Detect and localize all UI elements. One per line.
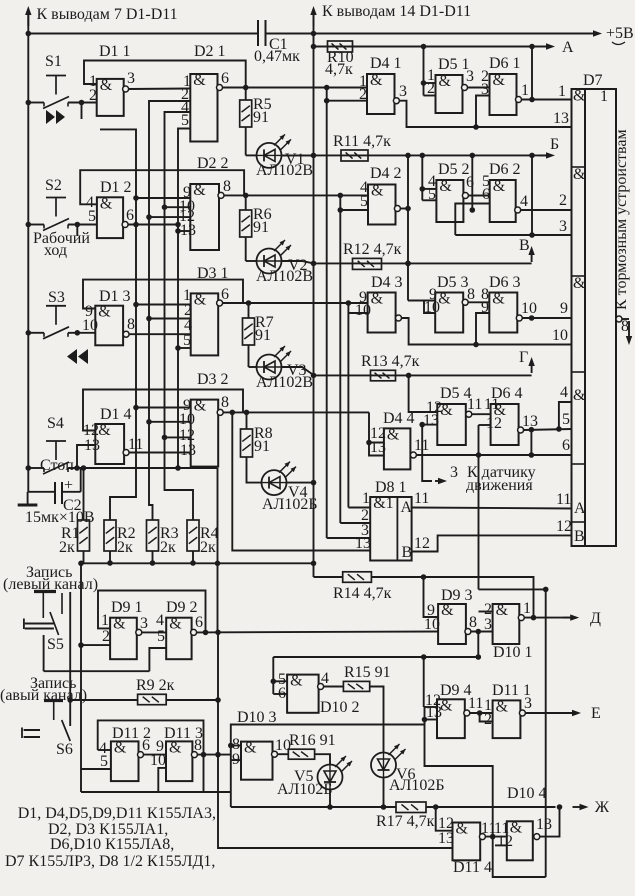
svg-text:D6 2: D6 2 [489, 161, 521, 178]
wire node A down to D5.1 pins [423, 47, 425, 96]
wire V1 to B rail [282, 154, 314, 156]
wire D4.2 out to row vertical [400, 208, 408, 210]
resistor R12 [353, 258, 382, 269]
svg-text:1: 1 [558, 83, 566, 100]
resistor R1 [78, 520, 90, 551]
node V arrow [531, 250, 533, 262]
wire S5 down to D9.2 pin5 [43, 635, 45, 671]
gate D10.1 [493, 604, 520, 644]
wire V6 to Zh rail [383, 778, 385, 808]
wire D5.2 pin5 stub [422, 199, 436, 201]
svg-text:&: & [496, 602, 509, 619]
wire D6.4 pin12 stub [479, 424, 491, 426]
svg-text:&1: &1 [373, 495, 393, 512]
gate D6.3 [489, 293, 517, 333]
wire D4.4 out to D7 pin6 [416, 454, 571, 456]
wire D10.2 out to R15 [324, 686, 344, 688]
wire D3.2 pin10 to bus2 [149, 421, 191, 423]
wire out node down to y657 [477, 632, 479, 658]
svg-text:5: 5 [562, 411, 570, 428]
record head S5 [34, 590, 56, 593]
svg-text:S5: S5 [47, 636, 64, 653]
gate D6.3 output bubble [516, 315, 522, 321]
svg-text:3: 3 [559, 218, 567, 235]
gate D11.1 [493, 700, 521, 738]
gate D9.1 [110, 618, 137, 660]
svg-text:1: 1 [101, 612, 109, 629]
switch S1 [46, 75, 66, 77]
svg-text:R11 4,7к: R11 4,7к [333, 133, 391, 150]
gate D6.4 output bubble [518, 427, 524, 433]
wire +5V vertical middle [313, 10, 315, 577]
svg-text:R17 4,7к: R17 4,7к [376, 813, 435, 830]
wire C2 right up to S4 row [62, 491, 81, 493]
svg-text:D11 4: D11 4 [453, 859, 492, 876]
ground [27, 492, 29, 504]
gate D5.3 [435, 293, 463, 333]
wire R5 to V1 [245, 127, 247, 155]
wire D3.1 pin1 to bus1 [136, 304, 191, 306]
svg-text:&: & [98, 304, 111, 321]
svg-text:&: & [100, 77, 113, 94]
wire S1 stub down [81, 103, 83, 120]
wire R16 to V5 [315, 754, 330, 764]
svg-text:13: 13 [423, 412, 439, 429]
svg-text:&: & [573, 88, 586, 105]
svg-text:&: & [492, 291, 505, 308]
gate D10.4 [507, 821, 533, 860]
svg-text:&: & [193, 182, 206, 199]
gate D5.4 [437, 404, 466, 445]
wire D2.2 pin12 to bus2 [149, 216, 190, 218]
rewind symbol [78, 349, 88, 364]
wire S2 stub [76, 225, 78, 237]
wire vertical D9.2-out down to D11.4 pin13 [218, 632, 453, 848]
wire node down to D9.3 pin9 [424, 577, 439, 617]
svg-text:D3 1: D3 1 [197, 265, 229, 282]
gate D5.4 output bubble [466, 411, 472, 417]
gate D4.3 [368, 293, 396, 333]
wire D1.4 pin13 from S4 [77, 445, 95, 468]
svg-text:2к: 2к [117, 539, 133, 556]
gate D2.2 [190, 184, 219, 250]
IC D7 [572, 89, 586, 546]
capacitor C1 [257, 20, 259, 46]
wire B-rail down to D6.2 out node [471, 155, 473, 210]
wire D6.4 out to D7 pin5 [524, 429, 572, 430]
wire D10.2 pin5 stub [273, 680, 287, 682]
wire D9.2 out to D9.3 pin10 [197, 631, 439, 634]
svg-text:10: 10 [424, 299, 440, 316]
svg-text:D4 4: D4 4 [383, 410, 415, 427]
svg-text:11: 11 [128, 436, 143, 453]
gate D10.2 [287, 675, 319, 713]
wire S2 row [28, 224, 44, 226]
wire bus D2.1-out down to D8.1 pin3 [326, 101, 328, 538]
resistor R8 hang wire [246, 412, 248, 429]
gate D11.4 output bubble [479, 834, 485, 840]
svg-text:&: & [439, 178, 452, 195]
wire R9 feed from interlock [70, 699, 137, 701]
wire D10.1 pin2 feed [479, 611, 493, 613]
svg-text:&: & [456, 821, 469, 838]
svg-text:11: 11 [556, 491, 571, 508]
wire V5 to Zh rail [329, 790, 331, 808]
svg-text:10: 10 [521, 300, 537, 317]
gate D4.2 output bubble [394, 206, 400, 212]
wire S1 row [28, 102, 44, 104]
wire D7 pin8 output [616, 316, 622, 322]
wire node line y657 [273, 656, 478, 658]
svg-text:D9 2: D9 2 [166, 599, 198, 616]
wire V2 to V rail [282, 261, 314, 263]
svg-text:R9 2к: R9 2к [136, 677, 175, 694]
svg-text:6: 6 [221, 70, 229, 87]
wire +5V vertical to R14 [314, 576, 343, 578]
svg-text:5: 5 [157, 628, 165, 645]
LED V3 [257, 355, 282, 380]
wire D9.4 pin13 line to D10.3 [231, 707, 425, 760]
wire D3.2 pin12 to bus3 [165, 436, 191, 438]
wire D9.1 pin2 from record line [81, 644, 110, 646]
svg-text:2к: 2к [200, 539, 216, 556]
gate D10.2 output bubble [318, 684, 324, 690]
gate D11.2 output bubble [138, 752, 144, 758]
gate D1.2 output bubble [122, 222, 128, 228]
record head S6 [44, 699, 63, 702]
svg-text:8: 8 [223, 178, 231, 195]
svg-text:(авый канал): (авый канал) [0, 687, 87, 704]
svg-text:S6: S6 [56, 741, 73, 758]
gate D4.1 [367, 74, 395, 114]
gate D11.3 [166, 741, 192, 781]
wire D11.2 out to D11.3 pin9 [144, 754, 167, 756]
wire D11.2 pin4 stub [98, 749, 111, 751]
gate D2.2 output bubble [218, 192, 224, 198]
wire D3.1 pin2 to bus2 [149, 318, 191, 320]
svg-text:D1 3: D1 3 [99, 288, 131, 305]
svg-text:D6 3: D6 3 [489, 274, 521, 291]
wire R14 to node [371, 576, 423, 578]
wire y657 left vertical down to D9.4 [423, 657, 425, 707]
svg-text:К тормозным устройствам: К тормозным устройствам [613, 129, 630, 310]
wire D2.2 pin10 to bus3 [165, 206, 191, 208]
wire D11.1 pin2 stub [480, 713, 493, 722]
op-amp D4.1 output bubble [393, 98, 399, 104]
svg-text:АЛ102В: АЛ102В [256, 162, 313, 179]
svg-text:+5В: +5В [606, 25, 634, 42]
svg-text:&: & [441, 602, 454, 619]
LED V1 [257, 143, 282, 168]
svg-text:D5 2: D5 2 [438, 161, 470, 178]
+5V arrow [593, 30, 602, 36]
wire D9.4 pin12 stub [425, 706, 438, 708]
wire down to D10.2 pins [272, 657, 274, 694]
svg-text:Б: Б [550, 136, 559, 153]
gate D4.2 [368, 185, 396, 225]
gate D5.2 output bubble [462, 193, 468, 199]
wire GND top rail to C1 [28, 33, 258, 35]
svg-text:&: & [493, 72, 506, 89]
wire D6.1 out to D7 pin1 [522, 99, 572, 101]
svg-text:8: 8 [127, 316, 135, 333]
svg-text:&: & [496, 698, 509, 715]
wire D4.3 out to D7 pin10 line [402, 318, 572, 345]
svg-text:А: А [574, 500, 586, 517]
gate D9.4 [437, 699, 465, 738]
resistor R9 [138, 694, 167, 704]
resistor R5 hang wire [245, 88, 247, 101]
svg-text:3: 3 [140, 615, 148, 632]
wire D5.4 out to D6.4 pin11 [472, 413, 491, 415]
svg-text:12: 12 [556, 518, 572, 535]
svg-text:&: & [387, 426, 400, 443]
play symbol [46, 110, 55, 124]
wire row V rail [314, 262, 532, 264]
node A arrow [539, 46, 551, 48]
svg-text:АЛ102Б: АЛ102Б [262, 496, 318, 513]
gate D3.2 output bubble [217, 409, 223, 415]
LED V2 [257, 249, 282, 274]
svg-text:8: 8 [469, 614, 477, 631]
svg-text:10: 10 [552, 327, 568, 344]
wire R17 node to D11.4 pin12 [436, 807, 453, 831]
wire B-rail down to D5.2 pins [421, 155, 423, 200]
gate D5.1 output bubble [462, 85, 468, 91]
wire D6.2 pin6 to D7 pin3 line [455, 204, 489, 236]
svg-text:5: 5 [428, 186, 436, 203]
svg-text:6: 6 [195, 614, 203, 631]
svg-text:D6 4: D6 4 [491, 385, 523, 402]
svg-text:13: 13 [355, 535, 371, 552]
svg-text:3: 3 [450, 464, 458, 481]
wire loop vertical down [545, 589, 547, 877]
svg-text:0,47мк: 0,47мк [254, 48, 300, 65]
wire D3.1 out to D4.3 pin9 [223, 302, 368, 304]
wire D1.2-D2.2 feedback loop [80, 170, 244, 204]
svg-text:10: 10 [424, 616, 440, 633]
wire D2.2 out to D4.2 pins 4-5 [223, 194, 368, 196]
wire D4.4 pin13 tie [369, 443, 384, 456]
svg-text:2: 2 [89, 87, 97, 104]
wire D3.2 out to D4.4 pins [223, 411, 369, 413]
gate D2.1 output bubble [217, 85, 223, 91]
svg-text:&: & [371, 291, 384, 308]
wire D10.3 out to R16 [278, 753, 289, 755]
wire row B rail [281, 154, 549, 156]
gate D1.2 [97, 197, 123, 238]
svg-text:D5 3: D5 3 [437, 274, 469, 291]
wire D9.1 out to D9.2 pin4 [142, 631, 166, 633]
svg-text:R13 4,7к: R13 4,7к [361, 353, 420, 370]
wire D6.2 out to D7 pin2 [521, 209, 572, 211]
svg-text:1: 1 [362, 490, 370, 507]
LED V4 [262, 470, 287, 495]
wire D5.1 pin2 stub [424, 95, 436, 97]
svg-text:D10 3: D10 3 [237, 709, 277, 726]
gate D5.2 [436, 180, 463, 222]
svg-text:4: 4 [520, 193, 528, 210]
gate D6.2 [490, 180, 516, 222]
svg-text:D6,D10 К155ЛА8,: D6,D10 К155ЛА8, [50, 836, 174, 853]
svg-text:D11 2: D11 2 [112, 725, 151, 742]
wire D4.2 pin4-5 tie [339, 195, 341, 210]
svg-text:D7: D7 [583, 72, 603, 89]
svg-text:5: 5 [181, 112, 189, 129]
wire R bottom rail [83, 551, 85, 563]
svg-text:5: 5 [100, 753, 108, 770]
svg-text:13: 13 [553, 110, 569, 127]
capacitor C2 [54, 482, 56, 504]
svg-text:R16 91: R16 91 [289, 732, 336, 749]
wire R1 feed [83, 468, 85, 520]
svg-text:&: & [493, 178, 506, 195]
svg-text:D9 1: D9 1 [111, 599, 143, 616]
wire D4.1 out to D7 pin13 [399, 101, 571, 127]
svg-text:2: 2 [484, 711, 492, 728]
svg-text:движения: движения [466, 477, 533, 494]
svg-text:D8 1: D8 1 [375, 479, 407, 496]
svg-text:91: 91 [253, 219, 269, 236]
gate D9.3 [438, 604, 466, 644]
svg-text:B: B [402, 544, 413, 561]
svg-text:&: & [290, 673, 303, 690]
svg-text:11: 11 [414, 490, 429, 507]
svg-text:S4: S4 [47, 415, 64, 432]
svg-text:&: & [193, 72, 206, 89]
resistor R6 hang wire [245, 195, 247, 210]
svg-text:3: 3 [127, 70, 135, 87]
gate D8.1 [370, 497, 411, 561]
wire bus1 top segment [100, 129, 136, 520]
wire row A rail [314, 46, 550, 48]
svg-text:&: & [573, 166, 586, 183]
resistor R3 [147, 520, 159, 551]
svg-text:A: A [401, 499, 413, 516]
wire vertical B to D5.3 pin9 [407, 155, 409, 300]
wire D2.2 pin9 to bus1 [136, 197, 190, 199]
wire D6.1 pin3 to pin13 line [476, 96, 490, 128]
switch S4 [46, 440, 66, 442]
LED V5 [318, 765, 343, 790]
wire D10.1 out to node D arrow [524, 617, 575, 619]
wire G rail down to D5.4 pin12 [409, 375, 438, 412]
wire +5V rail from C1 [266, 33, 599, 35]
node B arrow [539, 154, 551, 156]
wire D11.1 out to node E arrow [525, 712, 577, 714]
svg-text:АЛ102В: АЛ102В [256, 268, 313, 285]
svg-text:Е: Е [591, 705, 601, 722]
svg-text:D4 3: D4 3 [371, 274, 403, 291]
resistor R8 [241, 429, 253, 457]
gate D1.1 [97, 79, 124, 116]
svg-text:&: & [194, 291, 207, 308]
gate D6.2 output bubble [515, 207, 521, 213]
svg-text:13: 13 [438, 830, 454, 847]
wire D5.4 pin13 stub [422, 424, 437, 426]
svg-text:&: & [438, 291, 451, 308]
wire S5 interlock vertical [69, 592, 71, 726]
gate D1.3 [95, 306, 123, 346]
svg-text:&: & [440, 402, 453, 419]
wire D7 pin4-5 loop [559, 402, 572, 429]
svg-text:4,7к: 4,7к [325, 61, 353, 78]
svg-text:4: 4 [560, 384, 568, 401]
resistor R7 hang wire [248, 303, 250, 318]
svg-text:2к: 2к [160, 539, 176, 556]
gate D4.3 output bubble [396, 315, 402, 321]
wire bottom tie S6 line [81, 791, 231, 793]
gate D3.1 output bubble [217, 300, 223, 306]
wire vertical to D10.1 pin2 [478, 425, 480, 589]
wire GND vertical left [27, 10, 29, 492]
gate D11.3 output bubble [191, 752, 197, 758]
wire D5.2 pin4 stub [422, 188, 436, 190]
wire D10.4 out up to Zh rail [540, 807, 560, 837]
wire bus D3.1-out down to D8.1 pin1 [347, 313, 349, 508]
wire bus D2.2-out down to D8.1 pin2 [339, 210, 341, 523]
svg-text:91: 91 [254, 438, 270, 455]
wire D11.3 out to vertical [197, 754, 230, 756]
wire D6.3 out to D7 pin9 [522, 317, 571, 319]
svg-text:D11 3: D11 3 [164, 725, 203, 742]
resistor R15 [343, 681, 369, 691]
wire S4 row [28, 467, 44, 469]
node G arrow [531, 361, 533, 373]
wire D5.3 out to D6.3 pin8 [468, 301, 489, 303]
svg-text:9: 9 [560, 300, 568, 317]
wire S3 row [28, 332, 44, 334]
resistor R16 [288, 749, 314, 759]
gate D4.4 [384, 428, 411, 469]
wire D10.3 pin9 stub [231, 759, 241, 761]
gate D3.2 [191, 400, 219, 467]
svg-text:&: & [439, 73, 452, 90]
wire R6 to V2 [245, 237, 247, 261]
gate D3.1 [191, 293, 219, 355]
LED V6 [371, 753, 396, 778]
wire D5.1 out to D6.1 pin2 [468, 87, 490, 89]
svg-text:6: 6 [562, 437, 570, 454]
svg-text:Стоп: Стоп [40, 457, 74, 474]
svg-text:А: А [562, 39, 574, 56]
wire D1.1 out to D2.1 pin1 [129, 88, 191, 91]
svg-text:Д: Д [590, 610, 601, 627]
wire V4 to +5V vertical [287, 482, 314, 484]
wire D11.2-D11.3 feedback loop [98, 720, 204, 792]
node A junction [421, 44, 427, 50]
node +5V bus (pins 14 D1-D11) arrow [313, 10, 315, 26]
svg-text:АЛ102В: АЛ102В [256, 374, 313, 391]
wire D9.1-D9.2 feedback loop [98, 591, 206, 633]
svg-text:Г: Г [519, 349, 528, 366]
svg-text:В: В [519, 237, 530, 254]
svg-text:91: 91 [253, 109, 269, 126]
wire D2.1 pin5 to bus4 [178, 129, 190, 469]
resistor R17 [396, 802, 426, 813]
wire R9 to vertical [166, 699, 218, 701]
resistor R13 [371, 370, 396, 381]
gate D9.1 output bubble [136, 629, 142, 635]
gate D1.4 output bubble [123, 450, 129, 456]
resistor R7 [243, 318, 255, 345]
wire S4 down to D9 row [217, 468, 219, 632]
svg-text:D5 1: D5 1 [438, 56, 470, 73]
resistor R5 [240, 100, 252, 127]
wire vertical V to D5.3 pin stubs [408, 300, 435, 302]
wire D7 pin3 line [455, 234, 571, 236]
svg-text:S2: S2 [45, 177, 62, 194]
